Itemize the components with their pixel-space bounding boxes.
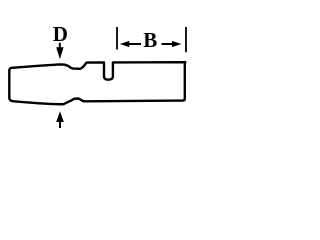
- svg-text:B: B: [143, 28, 157, 52]
- B dimension right bar: [185, 27, 187, 52]
- part outline: [9, 62, 185, 104]
- B dimension left bar: [116, 27, 118, 50]
- B right arrow: [162, 41, 182, 47]
- D arrow (down): [56, 43, 63, 59]
- B left arrow: [120, 41, 141, 47]
- bottom arrow (up): [56, 111, 64, 128]
- svg-text:D: D: [53, 22, 68, 46]
